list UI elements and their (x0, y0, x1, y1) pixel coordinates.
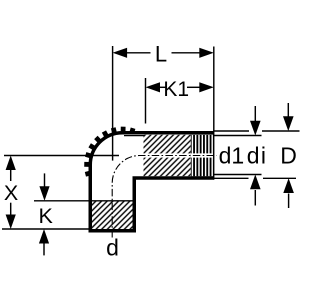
svg-text:di: di (247, 142, 268, 168)
svg-text:D: D (280, 142, 297, 168)
svg-text:K1: K1 (163, 78, 189, 101)
svg-text:L: L (155, 41, 167, 66)
svg-text:K: K (39, 204, 54, 228)
svg-text:d: d (106, 235, 119, 261)
svg-text:d1: d1 (219, 142, 245, 168)
svg-text:X: X (4, 181, 18, 205)
